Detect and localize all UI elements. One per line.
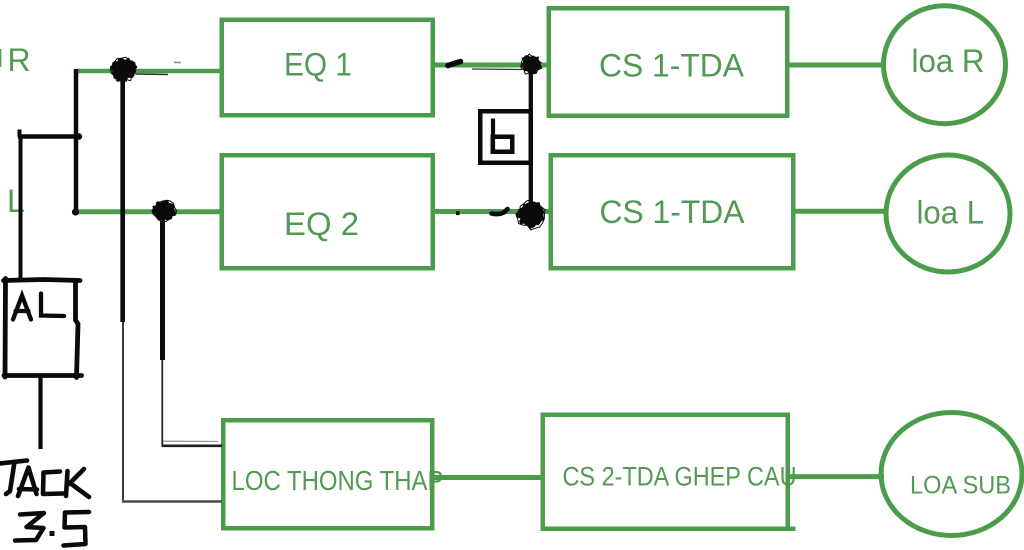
block CS1 R (549, 8, 788, 116)
jack label AL (13, 294, 64, 320)
svg-text:LOC THONG THAP: LOC THONG THAP (232, 465, 444, 496)
wire junction EQ1 to junction EQ2 (black vertical) (529, 65, 533, 215)
junction blob on L wire (152, 200, 177, 221)
junction blob on EQ2 output (516, 200, 545, 230)
speaker LOA SUB (881, 413, 1022, 536)
wire EQ2 to CS1 L (435, 209, 549, 214)
clipped glyph sliver at left edge (0, 49, 1, 67)
svg-text:CS 2-TDA GHEP CAU: CS 2-TDA GHEP CAU (563, 462, 797, 492)
dash marks on EQ2 output wire (456, 209, 508, 215)
wire R input (77, 69, 221, 74)
svg-text:EQ 2: EQ 2 (284, 206, 359, 242)
svg-text:loa R: loa R (912, 43, 985, 79)
wire L input (76, 209, 221, 214)
block LOC THONG THAP (223, 420, 443, 528)
junction blob on EQ1 output (521, 54, 542, 74)
thin mark right of R junction (136, 73, 169, 76)
wire from R junction down to LOC input (lower) (122, 76, 222, 502)
svg-text:EQ 1: EQ 1 (284, 47, 352, 83)
wire CS2 to speaker LOA SUB (790, 474, 884, 479)
wire CS1 L to speaker loa L (796, 209, 889, 214)
wire black tap horizontal (18, 130, 82, 140)
faint mark above R wire (174, 62, 181, 64)
wire from L junction down to LOC input (upper) (162, 218, 223, 446)
wire EQ1 to CS1 R (435, 63, 547, 68)
label JACK (handwritten) (0, 461, 89, 498)
block CS1 L (551, 155, 794, 268)
wire black down to AL box (19, 136, 23, 278)
thin mark on EQ1 output wire (472, 68, 522, 71)
dot between 3 and 5 (50, 531, 55, 536)
speaker loa R (884, 6, 1006, 124)
junction blob on R wire (110, 57, 136, 81)
jack body AL box (4, 279, 82, 378)
block EQ1 (222, 20, 433, 116)
svg-text:R: R (8, 42, 31, 78)
block CS2 TDA GHEP CAU (543, 415, 797, 529)
svg-text:LOA SUB: LOA SUB (910, 472, 1011, 500)
wire below AL box (38, 377, 42, 449)
svg-text:loa L: loa L (917, 195, 985, 231)
switch box b (480, 111, 531, 163)
block EQ2 (222, 155, 433, 268)
label 3.5 (handwritten) (15, 512, 89, 546)
speaker loa L (886, 155, 1010, 272)
svg-text:CS 1-TDA: CS 1-TDA (600, 194, 746, 230)
wire CS1 R to speaker loa R (790, 63, 887, 68)
wire black vertical R-to-L tie (72, 69, 79, 216)
svg-text:CS 1-TDA: CS 1-TDA (599, 48, 745, 84)
wire LOC to CS2 (435, 475, 543, 480)
dash mark on EQ1 output wire (448, 62, 461, 66)
